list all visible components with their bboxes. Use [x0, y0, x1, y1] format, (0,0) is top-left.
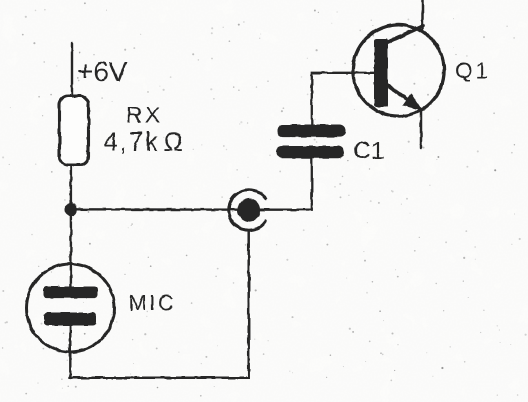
MIC circle [27, 264, 115, 352]
wire capacitor to transistor base [312, 73, 375, 126]
transistor Q1 circle [353, 25, 444, 116]
node junction dot [65, 203, 78, 216]
shield arc [229, 190, 266, 230]
wire junction to capacitor [259, 157, 312, 210]
svg-text:C1: C1 [353, 138, 384, 165]
transistor emitter stroke [386, 85, 412, 104]
bottom shield return wire [69, 376, 249, 379]
shield return riser wire [247, 231, 250, 378]
wire +6V supply [71, 44, 73, 98]
collector wire [421, 0, 424, 30]
emitter wire [420, 110, 423, 148]
MIC bottom plate [44, 313, 96, 326]
resistor RX [60, 96, 89, 165]
transistor base bar [374, 39, 388, 107]
wire resistor to node to MIC [70, 165, 72, 288]
shield junction dot [237, 198, 260, 221]
wire MIC to bottom rail [69, 325, 71, 378]
wire node to shield junction [71, 208, 248, 211]
capacitor C1 bottom plate [276, 146, 344, 158]
svg-text:4,7k Ω: 4,7k Ω [104, 129, 185, 157]
emitter arrowhead [403, 94, 421, 109]
capacitor C1 top plate [277, 125, 346, 138]
svg-text:RX: RX [126, 103, 163, 128]
svg-text:Q1: Q1 [455, 58, 491, 83]
MIC top plate [43, 287, 98, 299]
svg-text:+6V: +6V [77, 56, 128, 87]
svg-text:MIC: MIC [129, 291, 177, 316]
transistor collector stroke [387, 26, 423, 43]
